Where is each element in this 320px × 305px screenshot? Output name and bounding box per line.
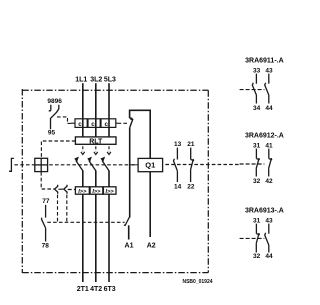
c-block connector c1-c2 [86,122,89,124]
manual actuator symbol [9,158,14,171]
3RA6911 contact 33-34 (NO) [252,74,256,104]
svg-text:c: c [91,121,95,128]
overload aux contact arm (95 common) [51,112,57,129]
svg-text:1L1: 1L1 [75,77,87,84]
svg-text:c: c [78,121,82,128]
svg-text:32: 32 [253,253,261,260]
overload aux contact 98 stub [49,105,51,111]
svg-text:41: 41 [265,142,273,149]
svg-text:I>>: I>> [78,189,87,195]
wire L3 mid segment [108,171,110,187]
trip arrow under RLT (L2) [94,146,98,154]
overload release I>> box 1 [75,187,89,195]
lower linkage dashed horizontal [47,221,124,223]
svg-text:I>>: I>> [106,189,115,195]
svg-text:13: 13 [174,141,182,148]
3RA6911 linkage dash-dot [240,89,265,91]
svg-text:3L2: 3L2 [90,77,102,84]
svg-text:43: 43 [265,67,273,74]
svg-text:3RA6913-.A: 3RA6913-.A [245,207,284,214]
linkage square to latch row [41,172,54,189]
3RA6912 contact 41-42 (NC) [269,149,273,177]
svg-text:34: 34 [253,105,261,112]
RLT trip unit box [75,137,116,146]
svg-text:44: 44 [265,253,273,260]
wire re-draw L2 through c2 [95,119,97,128]
svg-text:A1: A1 [125,243,134,250]
main contact L3 [101,157,110,171]
dash between chevrons [58,188,63,190]
overload aux contact 96 stub with elbow [56,105,58,113]
wire L1 mid segment [82,171,84,187]
svg-text:43: 43 [265,217,273,224]
wire re-draw L1 through c1 [82,119,84,128]
main contact L1 (arm with solid arrowhead) [74,157,83,171]
svg-text:22: 22 [187,183,195,190]
svg-text:4T2: 4T2 [90,286,102,293]
wire A1 vertical [129,127,131,217]
c-block connector c2-c3 [99,122,102,124]
3RA6913 linkage dash-dot [240,237,265,239]
svg-text:A2: A2 [147,243,156,250]
svg-text:6T3: 6T3 [104,286,116,293]
3RA6912 contact 31-32 (NC) [256,149,260,177]
mechanism square with cross [35,158,48,171]
svg-text:2T1: 2T1 [77,286,89,293]
latch chevron 2 [64,185,67,194]
coil circuit top wire [130,110,151,158]
svg-text:77: 77 [42,198,50,205]
svg-text:95: 95 [48,130,56,137]
latch tail 2 [66,195,68,222]
aux contact 21-22 (NC) [191,148,195,182]
main contact L2 [87,157,96,171]
switching element c2 [88,119,100,128]
3RA6912 linkage dash-dot [240,163,265,165]
linkage dashed Q1 to aux contacts and border [132,164,136,166]
svg-text:32: 32 [253,178,261,185]
enclosure border top (chain line) [22,89,208,91]
wire L3 top segment [108,83,110,137]
overload release I>> box 2 [90,187,103,195]
latch tail 1 [57,195,59,222]
svg-text:3RA6911-.A: 3RA6911-.A [245,57,284,64]
svg-text:RLT: RLT [89,138,103,145]
contact 77-78 [42,205,46,242]
switching element c1 [75,119,87,128]
trip arrow under RLT (L1) [81,146,85,154]
wire L2 mid segment [95,171,97,187]
svg-text:31: 31 [253,142,261,149]
wire A1 lower stub [128,225,130,239]
wire L1 top segment [82,83,84,137]
c-block right nub [116,122,118,124]
A1 upper contact (c-block operated) [130,118,133,128]
wire T2 bottom segment [95,194,97,282]
svg-text:21: 21 [187,141,195,148]
svg-text:42: 42 [265,178,273,185]
3RA6911 contact 43-44 (NO) [265,74,269,104]
svg-text:c: c [104,121,108,128]
c-block left lead dash [71,122,75,124]
aux contact 13-14 (NO) [174,148,178,182]
wire T1 bottom segment [82,194,84,282]
3RA6913 contact 31-32 (NC) [256,224,260,253]
wire L2 top segment [95,83,97,137]
enclosure border left (chain line) [21,89,23,273]
svg-text:3RA6912-.A: 3RA6912-.A [245,132,284,139]
enclosure border right (chain line) [207,90,209,272]
A1 lower contact [124,217,129,225]
dash chevron2 to I>> block [68,189,76,191]
svg-text:I>>: I>> [92,189,101,195]
switching element c3 [101,119,116,128]
svg-text:9896: 9896 [47,98,62,105]
3RA6913 contact 43-44 (NO) [265,224,269,253]
svg-text:78: 78 [42,242,50,249]
svg-text:31: 31 [253,217,261,224]
dashed link c-block to A1 upper contact [118,122,128,124]
linkage dashed horizontal (main, left of Q1) [14,164,138,166]
svg-text:Q1: Q1 [145,161,155,170]
latch chevron 1 [55,185,58,194]
contactor coil Q1 [138,158,163,171]
overload release I>> box 3 [103,187,116,195]
svg-text:33: 33 [253,67,261,74]
trip arrow under RLT (L3) [107,146,111,154]
enclosure border bottom (chain line) [22,272,208,274]
svg-text:44: 44 [265,105,273,112]
svg-text:5L3: 5L3 [104,77,116,84]
wire re-draw L3 through c3 [108,119,110,128]
dashed link 95-contact to c-block [57,117,71,124]
svg-text:NSB0_01924: NSB0_01924 [182,279,212,285]
svg-text:14: 14 [174,183,182,190]
wire T3 bottom segment [108,194,110,282]
dashed link RLT to mechanism square [41,141,75,158]
wire A2 vertical [149,172,151,237]
